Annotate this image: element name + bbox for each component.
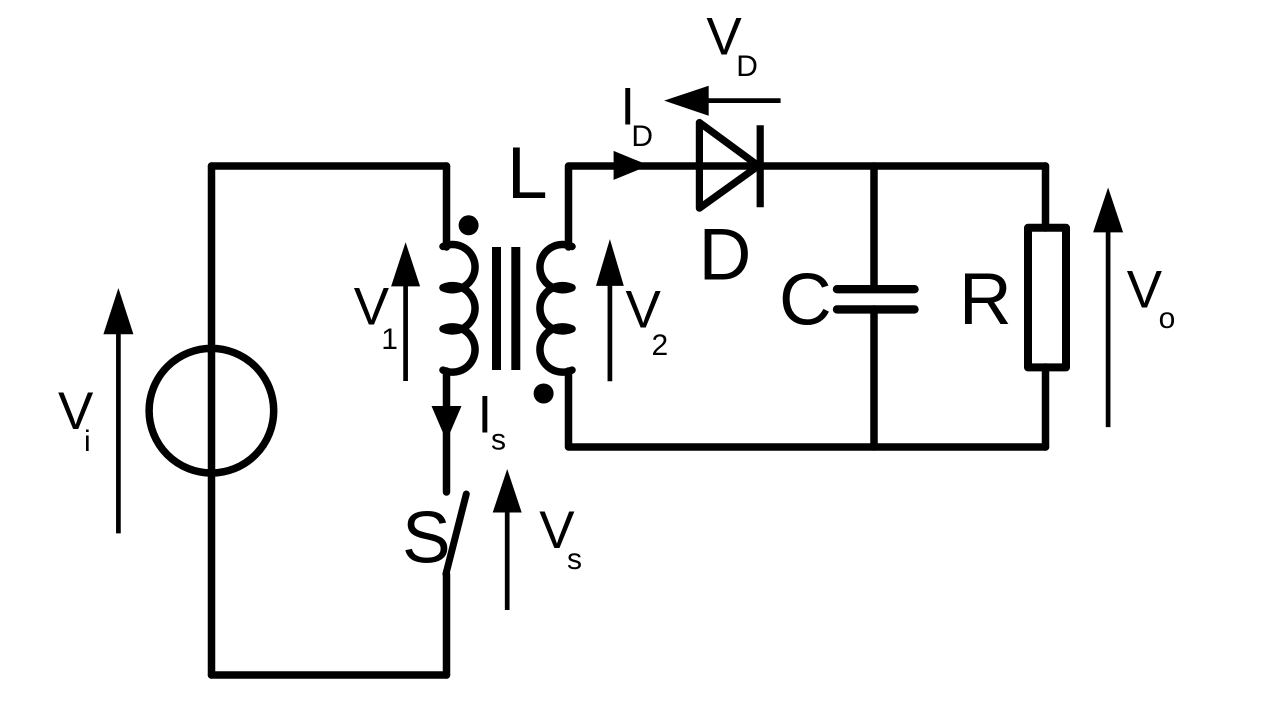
voltage arrow Vi line — [116, 330, 121, 533]
current arrow ID head — [614, 151, 649, 180]
voltage arrow Vs line — [505, 509, 510, 610]
switch S blade — [446, 494, 466, 574]
voltage arrow VD head — [664, 86, 709, 116]
svg-text:D: D — [631, 120, 653, 153]
svg-text:V: V — [1127, 260, 1163, 319]
voltage arrow VD line — [705, 98, 781, 103]
voltage arrow V1 head — [391, 242, 420, 286]
wire capacitor top lead — [870, 166, 878, 289]
svg-text:D: D — [736, 50, 758, 83]
wire capacitor bottom lead — [870, 309, 878, 447]
wire secondary top — [569, 166, 1046, 247]
svg-text:2: 2 — [652, 329, 669, 362]
transformer primary winding — [443, 244, 475, 372]
voltage arrow V2 head — [596, 239, 624, 286]
wire resistor top lead — [1042, 166, 1050, 228]
voltage source Vi circle — [149, 348, 274, 473]
svg-text:S: S — [402, 498, 451, 579]
svg-text:s: s — [491, 424, 506, 457]
wire primary below winding — [443, 371, 451, 492]
svg-text:C: C — [779, 260, 832, 341]
svg-text:o: o — [1159, 302, 1176, 335]
voltage arrow Vo line — [1106, 229, 1111, 427]
svg-text:R: R — [959, 259, 1012, 340]
wire primary top — [443, 166, 451, 247]
wire switch to bottom — [443, 574, 451, 675]
wire left vertical — [208, 166, 216, 675]
voltage arrow Vi head — [103, 288, 133, 334]
resistor R body — [1028, 228, 1066, 368]
svg-text:s: s — [567, 543, 582, 576]
transformer core bar 1 — [492, 247, 501, 370]
voltage arrow Vo head — [1093, 188, 1123, 233]
voltage arrow V2 line — [608, 282, 613, 381]
capacitor C top plate — [837, 285, 915, 293]
wire left loop top — [212, 162, 447, 170]
svg-text:D: D — [699, 214, 752, 295]
svg-text:1: 1 — [381, 323, 398, 356]
transformer primary polarity dot — [459, 215, 479, 235]
svg-text:i: i — [84, 425, 91, 458]
svg-text:L: L — [507, 133, 548, 214]
wire left loop bottom — [212, 671, 447, 679]
wire resistor bottom lead — [1042, 367, 1050, 447]
capacitor C bottom plate — [837, 305, 915, 313]
diode D triangle — [699, 123, 758, 209]
transformer core bar 2 — [511, 247, 520, 370]
diode D cathode bar — [757, 125, 764, 207]
transformer secondary polarity dot — [534, 384, 554, 404]
voltage arrow V1 line — [403, 283, 408, 381]
voltage arrow Vs head — [493, 469, 522, 513]
current arrow Is head — [432, 406, 462, 441]
transformer secondary winding — [540, 244, 572, 372]
wire secondary bottom — [569, 371, 1046, 447]
